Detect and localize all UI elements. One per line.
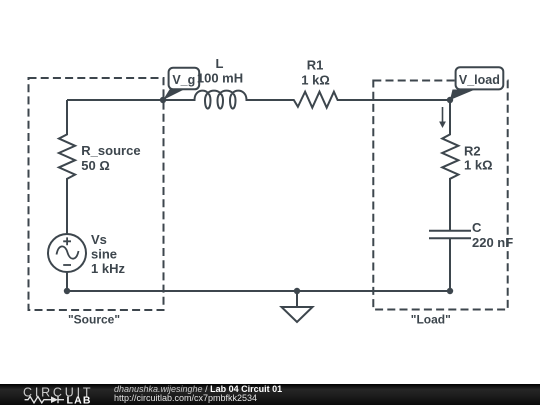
svg-text:220 nF: 220 nF [472,235,513,250]
svg-text:"Load": "Load" [411,312,451,326]
svg-text:1 kΩ: 1 kΩ [301,73,330,88]
svg-text:sine: sine [91,247,117,262]
svg-text:Vs: Vs [91,232,107,247]
svg-text:V_load: V_load [459,73,500,87]
svg-text:100 mH: 100 mH [197,71,243,86]
svg-text:L: L [216,56,224,71]
svg-text:C: C [472,220,482,235]
svg-text:V_g: V_g [172,73,195,87]
svg-text:R1: R1 [307,58,324,73]
svg-text:LAB: LAB [67,394,92,405]
svg-text:R_source: R_source [81,143,140,158]
svg-text:R2: R2 [464,143,481,158]
svg-text:1 kΩ: 1 kΩ [464,158,493,173]
svg-text:1 kHz: 1 kHz [91,261,125,276]
svg-text:50 Ω: 50 Ω [81,158,110,173]
svg-text:"Source": "Source" [68,312,120,326]
